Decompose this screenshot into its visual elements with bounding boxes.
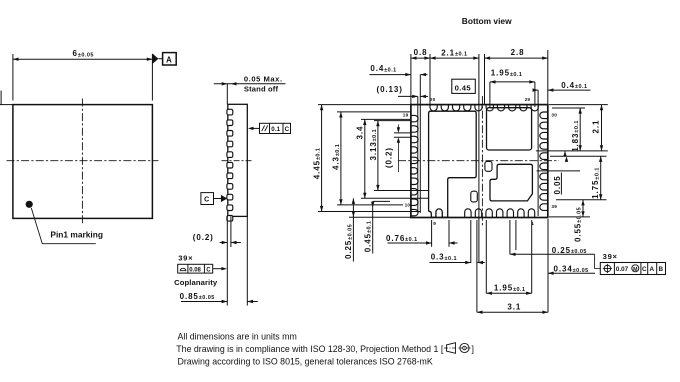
dimension (0.2) left ticks [394, 125, 411, 173]
bottom right exposed die pad [490, 164, 532, 201]
top view vertical centerline [81, 99, 83, 225]
side view extension line body left offset [230, 216, 232, 247]
text 3.1 [507, 303, 521, 312]
extension line bottom edge right [549, 216, 590, 218]
stand off dimension line [214, 82, 286, 85]
pin number 20 [430, 97, 436, 102]
svg-text:Pin1 marking: Pin1 marking [50, 230, 103, 240]
dimension 0.4 right line [533, 88, 591, 91]
bottom view horizontal centerline [398, 160, 559, 162]
pin number 39 [551, 204, 557, 209]
extension line y=120.6 [374, 120, 411, 122]
svg-text:39: 39 [551, 204, 557, 209]
dimension 0.85 line [181, 300, 258, 303]
text 1.75±0.1 [591, 167, 600, 199]
text (0.2) [193, 233, 214, 242]
text 39x position [603, 252, 618, 261]
text 0.25±0.05 right [552, 246, 587, 255]
coplanarity frame leader arrow [213, 267, 227, 270]
pin number 10 [405, 203, 411, 208]
side view horizontal centerline [222, 160, 254, 162]
dimension (0.2) line [220, 241, 241, 244]
extension line pad tip x=538.1 [537, 90, 539, 216]
svg-text:Drawing according to ISO 8015,: Drawing according to ISO 8015, general t… [178, 357, 433, 367]
extension line y=111.9 [337, 111, 411, 113]
large left exposed die pad [429, 111, 477, 217]
top view horizontal centerline [7, 160, 159, 162]
text 0.8 [414, 48, 428, 57]
dimension text 6±0.05 [73, 49, 94, 58]
svg-text:39×: 39× [603, 252, 618, 261]
side view package body [228, 104, 248, 216]
text 0.05 right [553, 173, 562, 195]
stand off reference line [226, 84, 228, 105]
text 4.45±0.1 [312, 148, 321, 180]
parallelism tolerance frame [260, 123, 291, 133]
svg-text:A: A [166, 55, 173, 64]
extension line top edge left [318, 104, 411, 106]
projection method symbol [444, 343, 474, 354]
text 3.13±0.1 [369, 129, 378, 161]
datum C box [201, 193, 214, 205]
svg-text:19: 19 [403, 112, 409, 117]
svg-text:C: C [206, 267, 211, 273]
text 0.05 Max. [244, 75, 283, 84]
parallelism frame leader arrow [248, 127, 260, 130]
svg-text:0.07: 0.07 [616, 266, 629, 273]
leader connector to tolerance frame [595, 254, 601, 268]
text 1.83±0.1 [571, 120, 580, 152]
extension line y=198.3 [361, 197, 429, 199]
bottom view vertical centerline [481, 96, 483, 226]
text 0.25±0.05 left [344, 224, 353, 259]
note ISO 8015 [178, 357, 433, 367]
right edge terminal pads 30-39 [540, 112, 548, 210]
text 2.1 right [591, 120, 600, 134]
extension line package right edge up [547, 50, 549, 105]
small center pad A [485, 161, 492, 171]
extension line y=150.9 [536, 150, 608, 152]
pin 1 marking dot [26, 201, 33, 208]
extension line x=470.8 down [470, 220, 472, 263]
dimension 1.83 line [579, 108, 582, 151]
svg-text:M: M [633, 267, 637, 273]
bottom view title [462, 16, 512, 26]
extension line x=449 down [448, 220, 450, 247]
left edge terminal pads 19-10 [411, 115, 418, 215]
svg-text:3.1: 3.1 [507, 303, 521, 312]
dimension 1.75 line [599, 156, 602, 200]
extension line x=486.3 down [485, 220, 487, 294]
svg-text:C: C [285, 126, 290, 133]
text (0.2) left [385, 147, 394, 168]
text 0.3±0.1 [431, 253, 457, 262]
extension line pad tip x=417.8 [417, 96, 419, 213]
dimension 1.95 top line [490, 80, 535, 83]
svg-text:]: ] [472, 344, 474, 354]
extension line x=431.6 down [431, 220, 433, 247]
extension line x=420.3 [419, 75, 421, 213]
text 0.76±0.1 [386, 234, 418, 243]
svg-text:(0.2): (0.2) [385, 147, 394, 168]
extension line y=156.3 [550, 155, 607, 157]
extension line x=531.7 down [531, 220, 533, 294]
dimension 0.4 left text [370, 64, 396, 73]
svg-text:9: 9 [433, 221, 436, 226]
datum A box [163, 53, 177, 65]
extension line y=204.9 [337, 204, 403, 206]
bottom view package outline [411, 105, 548, 218]
extension line y=119.4 [361, 118, 411, 120]
top right exposed die pad [487, 108, 532, 150]
text 1.95±0.1 top [491, 69, 523, 78]
dimension 0.05 arrows [563, 151, 568, 162]
svg-text:Coplanarity: Coplanarity [174, 278, 218, 287]
dimension 6±0.05 extension line left [12, 54, 14, 101]
dimension 0.25 left leader [352, 198, 355, 261]
dimension line 2.8 [485, 56, 548, 59]
dimension 6±0.05 extension line right [151, 54, 153, 101]
text 0.85±0.05 [180, 292, 215, 301]
extension line top edge right [549, 104, 608, 106]
dimension 0.3 line [430, 261, 485, 264]
svg-text:The drawing is in compliance w: The drawing is in compliance with ISO 12… [176, 344, 444, 354]
svg-text:All dimensions are in units mm: All dimensions are in units mm [178, 332, 297, 342]
pin number 9 [433, 221, 436, 226]
svg-text:20: 20 [430, 97, 436, 102]
dimension 2.1 right line [600, 105, 603, 151]
text Stand off [244, 85, 279, 94]
text Coplanarity [174, 278, 218, 287]
extension line x=509.9 down [509, 220, 511, 254]
dimension 3.13 line [376, 121, 379, 191]
dimension 3.1 line [477, 311, 548, 314]
bottom edge terminal pads 1-7 [465, 209, 535, 217]
dimension 0.4 left line [369, 73, 427, 76]
coplanarity tolerance frame [178, 264, 213, 273]
datum A flag triangle [152, 53, 162, 64]
pin number 29 [525, 97, 531, 102]
boxed text 0.45 [452, 79, 476, 93]
note all dimensions [178, 332, 297, 342]
extension line x=476.9 down [476, 220, 478, 312]
leader 0.34 [548, 272, 595, 275]
extension line package left edge up [410, 54, 412, 105]
top view left border cut extension line [0, 91, 13, 105]
dimension 0.13 line [398, 95, 428, 98]
extension line x=484.5 up [484, 54, 486, 105]
top view package body outline [13, 105, 153, 219]
svg-text:30: 30 [551, 113, 557, 118]
dimension 0.76 line [388, 241, 458, 244]
dimension 0.4 right text [561, 81, 587, 90]
svg-text:C: C [204, 197, 210, 204]
text (0.13) [377, 85, 403, 94]
extension line package right edge down [547, 219, 549, 312]
side view terminal bumps [227, 109, 233, 221]
small center pad B [471, 191, 478, 202]
leader 0.25 right [510, 253, 595, 256]
svg-text:3.4: 3.4 [355, 126, 364, 140]
svg-text:10: 10 [405, 203, 411, 208]
text 2.8 [511, 48, 525, 57]
extension line y=108 [552, 107, 585, 109]
text 0.45±0.1 left [364, 221, 373, 253]
dimension 1.95 bottom line [486, 292, 531, 295]
svg-text:0.45: 0.45 [455, 83, 472, 92]
dimension 1.95 top extension right [534, 82, 536, 107]
text 0.34±0.05 [554, 265, 589, 274]
dimension 6±0.05 line with arrows [13, 58, 153, 61]
dimension 1.95 top extension left [489, 82, 491, 107]
svg-text:2.1: 2.1 [591, 120, 600, 134]
svg-text:B: B [659, 266, 664, 273]
extension line y=199.8 [556, 199, 607, 201]
svg-text:0.1: 0.1 [271, 126, 280, 133]
extension line y=190.5 [374, 190, 429, 192]
label Pin1 marking [50, 230, 103, 240]
svg-text:Stand off: Stand off [244, 85, 279, 94]
dimension 4.3 line [339, 112, 342, 205]
svg-text:A: A [650, 266, 655, 273]
pin number 19 [403, 112, 409, 117]
dimension 3.4 line [363, 119, 366, 198]
svg-text:C: C [642, 266, 647, 273]
svg-text:(0.2): (0.2) [193, 233, 214, 242]
text 2.1±0.1 [441, 48, 467, 57]
extension line y=211.5 [318, 211, 420, 213]
pin number 30 [551, 113, 557, 118]
dimension line 0.8 and 2.1 [411, 56, 479, 59]
side view extension line pad face [226, 216, 228, 305]
dimension 0.55 line [581, 200, 584, 217]
text 0.55±0.05 [573, 207, 582, 242]
svg-text:39×: 39× [178, 253, 193, 262]
text 3.4 [355, 126, 364, 140]
svg-text:(0.13): (0.13) [377, 85, 403, 94]
extension line x=478.9 long [478, 54, 480, 263]
top edge terminal pads 20-29 [430, 105, 538, 111]
dimension 0.45 left leader [371, 201, 390, 253]
text 4.3±0.1 [332, 144, 341, 170]
position tolerance frame [600, 263, 665, 275]
extension line x=515.9 down [515, 220, 517, 250]
extension line y=170.9 [537, 170, 581, 172]
svg-text:29: 29 [525, 97, 531, 102]
side view extension line body right [246, 216, 248, 305]
dimension 4.45 line [320, 105, 323, 212]
text 1.95±0.1 bottom [494, 284, 526, 293]
svg-text:0.8: 0.8 [414, 48, 428, 57]
svg-text:0.05 Max.: 0.05 Max. [244, 75, 283, 84]
note ISO 128-30 [176, 344, 444, 354]
extension line x=430 up [429, 54, 431, 105]
datum C leader and triangle [214, 195, 228, 202]
svg-text:0.08: 0.08 [189, 267, 201, 273]
svg-text:0.05: 0.05 [553, 175, 562, 194]
svg-text:2.8: 2.8 [511, 48, 525, 57]
pin1 marking leader line [31, 208, 96, 244]
svg-text:Bottom view: Bottom view [462, 16, 512, 26]
pin number 1 [531, 221, 534, 226]
text 39x coplanarity [178, 253, 193, 262]
extension line bottom edge left [349, 216, 411, 218]
